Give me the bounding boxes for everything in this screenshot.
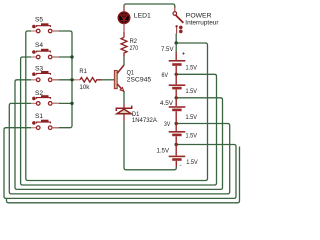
switch S4 [31, 42, 59, 59]
node 1.5V tap wire to S1 [4, 128, 236, 199]
junction dot battery top 7.5V [175, 41, 178, 44]
wire S2 right to rail [53, 102, 72, 104]
LED LED1 [118, 5, 151, 33]
wire common rail from switches to R1 [53, 31, 72, 128]
resistor R1 10k [74, 68, 102, 91]
wire Q1 emitter to D1 [123, 91, 125, 104]
svg-text:1.5V: 1.5V [157, 148, 170, 155]
plus mark [182, 52, 184, 54]
svg-text:1.5V: 1.5V [186, 88, 198, 95]
svg-text:Interrupteur: Interrupteur [185, 20, 219, 27]
svg-text:R1: R1 [79, 68, 87, 75]
wire S3 right to rail and R1 [53, 79, 75, 81]
switch S5 [31, 17, 59, 33]
switch S1 [31, 113, 59, 130]
resistor R2 270 [121, 32, 138, 57]
transistor Q1 2SC945 [114, 65, 151, 91]
junction dot 1.5V [175, 143, 178, 146]
svg-text:1N4732A: 1N4732A [132, 117, 157, 124]
wire S4 right to rail [53, 56, 72, 58]
svg-text:S4: S4 [35, 42, 43, 49]
zener diode D1 1N4732A [116, 104, 157, 124]
cell 5 [175, 145, 177, 156]
svg-text:S1: S1 [35, 113, 43, 120]
switch POWER Interrupteur [173, 7, 219, 34]
svg-text:1.5V: 1.5V [186, 65, 198, 72]
cell 4 [175, 124, 177, 132]
wire POWER switch to battery top [175, 34, 177, 44]
junction dot 4.5V [175, 96, 178, 99]
svg-text:LED1: LED1 [134, 12, 151, 19]
battery B1 stack of five 1.5V cells [157, 43, 199, 167]
cell 1 [175, 43, 177, 52]
svg-text:6V: 6V [162, 72, 169, 79]
svg-text:1.5V: 1.5V [186, 133, 198, 140]
wire R2 bottom to Q1 collector [123, 57, 125, 66]
svg-text:10k: 10k [79, 84, 90, 91]
cell 2 [175, 74, 177, 84]
node 7.5V tap wire to S5 [26, 31, 208, 181]
svg-text:1.5V: 1.5V [186, 159, 198, 166]
wire R1 to Q1 base [102, 79, 115, 81]
junction dot rail S4 [70, 55, 73, 58]
svg-text:3V: 3V [164, 121, 171, 128]
minus mark [180, 164, 182, 166]
svg-text:4.5V: 4.5V [160, 100, 174, 107]
wire battery bottom to D1 emitter net [124, 121, 176, 170]
junction dot rail S3/R1 [70, 78, 73, 81]
node 3V tap wire to S2 [9, 103, 229, 193]
cell 3 [175, 98, 177, 106]
svg-text:270: 270 [130, 45, 139, 52]
junction dot 3V [175, 122, 178, 125]
junction dot rail S2 [70, 102, 73, 105]
svg-text:7.5V: 7.5V [161, 46, 174, 53]
node 4.5V tap wire to S3 [15, 80, 223, 190]
svg-text:POWER: POWER [186, 12, 212, 19]
node 6V tap wire to S4 [21, 57, 217, 185]
wire outer bottom loop [7, 147, 240, 203]
switch S2 [31, 90, 59, 105]
junction dot 6V [175, 73, 178, 76]
switch S3 [31, 66, 59, 82]
wire top net: LED1 top to POWER switch [124, 4, 175, 12]
svg-text:S5: S5 [35, 17, 43, 24]
svg-text:2SC945: 2SC945 [127, 76, 152, 83]
svg-text:1.5V: 1.5V [186, 114, 198, 121]
